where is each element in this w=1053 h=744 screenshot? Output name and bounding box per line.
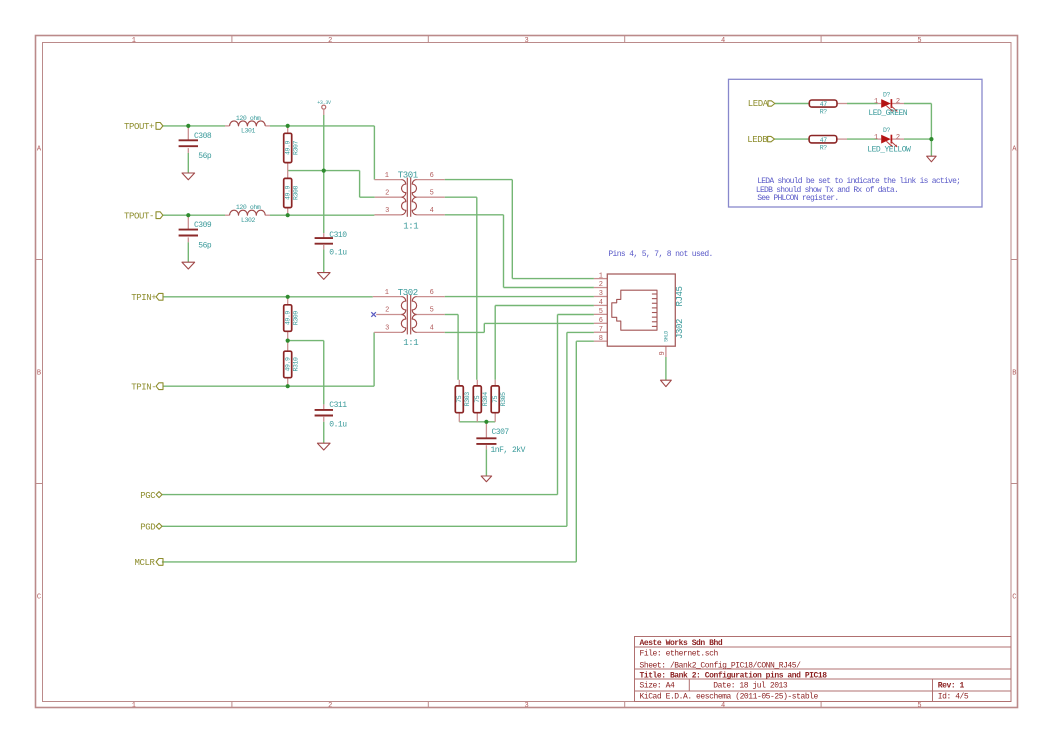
svg-text:56p: 56p <box>198 152 212 161</box>
svg-text:Title: Bank 2: Configuration p: Title: Bank 2: Configuration pins and PI… <box>640 672 828 681</box>
svg-text:3: 3 <box>385 207 389 215</box>
svg-text:6: 6 <box>430 289 434 297</box>
svg-text:B: B <box>1012 369 1016 377</box>
svg-text:LED_YELLOW: LED_YELLOW <box>867 146 911 155</box>
svg-text:1: 1 <box>874 134 878 142</box>
svg-text:D?: D? <box>883 92 891 99</box>
svg-text:B: B <box>37 369 41 377</box>
svg-text:1nF, 2kV: 1nF, 2kV <box>491 446 526 455</box>
svg-text:6: 6 <box>430 172 434 180</box>
svg-text:R?: R? <box>820 145 828 152</box>
svg-text:4: 4 <box>430 325 434 333</box>
svg-text:PGD: PGD <box>140 523 155 533</box>
svg-text:C308: C308 <box>194 132 212 141</box>
svg-text:2: 2 <box>328 37 332 45</box>
svg-text:4: 4 <box>721 702 725 710</box>
svg-text:47: 47 <box>820 101 828 108</box>
svg-text:5: 5 <box>430 307 434 315</box>
svg-text:0.1u: 0.1u <box>329 421 347 430</box>
svg-text:TPIN+: TPIN+ <box>131 293 156 303</box>
svg-text:R308: R308 <box>292 186 299 201</box>
svg-text:Aeste Works Sdn Bhd: Aeste Works Sdn Bhd <box>640 639 723 648</box>
svg-text:SHLD: SHLD <box>663 331 669 342</box>
svg-text:120 ohm: 120 ohm <box>236 115 261 122</box>
svg-text:C311: C311 <box>329 401 347 410</box>
svg-text:2: 2 <box>385 189 389 197</box>
svg-text:1: 1 <box>132 702 136 710</box>
svg-text:R303: R303 <box>464 392 471 407</box>
svg-text:R305: R305 <box>500 392 507 407</box>
svg-text:5: 5 <box>430 189 434 197</box>
svg-text:1:1: 1:1 <box>403 338 418 348</box>
svg-text:R?: R? <box>820 109 828 116</box>
svg-text:KiCad E.D.A. eeschema (2011-0: KiCad E.D.A. eeschema (2011-05-25)-stabl… <box>640 692 819 701</box>
svg-text:RJ45: RJ45 <box>675 286 685 306</box>
svg-text:TPOUT+: TPOUT+ <box>124 122 154 132</box>
svg-text:5: 5 <box>917 702 921 710</box>
svg-text:75: 75 <box>492 395 499 403</box>
svg-text:TPOUT-: TPOUT- <box>124 212 154 222</box>
svg-text:R309: R309 <box>292 311 299 326</box>
svg-text:PGC: PGC <box>140 491 156 501</box>
svg-text:Sheet: /Bank2_Config_PIC18/CON: Sheet: /Bank2_Config_PIC18/CONN_RJ45/ <box>640 661 802 670</box>
svg-text:Pins 4, 5, 7, 8 not used.: Pins 4, 5, 7, 8 not used. <box>608 250 712 259</box>
svg-text:R310: R310 <box>292 357 299 372</box>
svg-text:3: 3 <box>525 702 529 710</box>
svg-text:2: 2 <box>896 134 900 142</box>
svg-text:5: 5 <box>599 308 603 316</box>
svg-text:LED_GREEN: LED_GREEN <box>868 109 907 118</box>
svg-text:9: 9 <box>659 351 667 355</box>
svg-text:See PHLCON register.: See PHLCON register. <box>757 194 838 203</box>
svg-text:3: 3 <box>525 37 529 45</box>
svg-text:+3.3V: +3.3V <box>317 100 331 106</box>
svg-text:2: 2 <box>385 307 389 315</box>
svg-text:56p: 56p <box>198 241 212 250</box>
svg-text:49.9: 49.9 <box>284 140 291 155</box>
svg-text:L302: L302 <box>241 217 256 224</box>
svg-text:75: 75 <box>456 395 463 403</box>
svg-text:Id: 4/5: Id: 4/5 <box>938 692 969 701</box>
svg-text:D?: D? <box>883 127 891 134</box>
svg-text:2: 2 <box>896 98 900 106</box>
svg-text:Date: 18 jul 2013: Date: 18 jul 2013 <box>713 682 788 691</box>
svg-text:2: 2 <box>328 702 332 710</box>
svg-text:1: 1 <box>599 272 603 280</box>
svg-text:1: 1 <box>132 37 136 45</box>
svg-text:1:1: 1:1 <box>403 222 418 232</box>
svg-text:1: 1 <box>385 289 389 297</box>
svg-text:LEDB: LEDB <box>747 135 768 145</box>
svg-text:LEDA: LEDA <box>748 99 769 109</box>
svg-text:T301: T301 <box>398 171 418 181</box>
svg-text:C: C <box>37 593 41 601</box>
svg-text:7: 7 <box>599 326 603 334</box>
svg-text:Rev: 1: Rev: 1 <box>938 682 965 691</box>
svg-text:49.9: 49.9 <box>284 357 291 372</box>
svg-text:4: 4 <box>599 299 603 307</box>
svg-text:MCLR: MCLR <box>135 558 156 568</box>
svg-text:2: 2 <box>599 281 603 289</box>
svg-text:6: 6 <box>599 317 603 325</box>
svg-text:Size: A4: Size: A4 <box>640 682 675 691</box>
svg-text:1: 1 <box>874 98 878 106</box>
svg-text:R304: R304 <box>482 392 489 407</box>
svg-text:C: C <box>1012 593 1016 601</box>
svg-text:C309: C309 <box>194 221 212 230</box>
svg-text:49.9: 49.9 <box>284 311 291 326</box>
svg-text:5: 5 <box>917 37 921 45</box>
svg-text:T302: T302 <box>398 288 418 298</box>
svg-text:TPIN-: TPIN- <box>131 383 156 393</box>
svg-text:3: 3 <box>385 325 389 333</box>
svg-text:J302: J302 <box>675 319 685 339</box>
svg-text:0.1u: 0.1u <box>329 248 347 257</box>
svg-text:L301: L301 <box>241 128 256 135</box>
svg-text:4: 4 <box>430 207 434 215</box>
svg-text:LEDA should be set to indicate: LEDA should be set to indicate the link … <box>757 177 960 186</box>
svg-text:4: 4 <box>721 37 725 45</box>
svg-text:49.9: 49.9 <box>284 186 291 201</box>
svg-text:47: 47 <box>820 137 828 144</box>
svg-text:C310: C310 <box>329 231 347 240</box>
svg-text:3: 3 <box>599 290 603 298</box>
svg-text:8: 8 <box>599 335 603 343</box>
svg-text:C307: C307 <box>492 428 510 437</box>
svg-text:75: 75 <box>474 395 481 403</box>
svg-text:R307: R307 <box>292 140 299 155</box>
svg-text:120 ohm: 120 ohm <box>236 204 261 211</box>
svg-text:1: 1 <box>385 172 389 180</box>
svg-text:File: ethernet.sch: File: ethernet.sch <box>640 650 719 659</box>
